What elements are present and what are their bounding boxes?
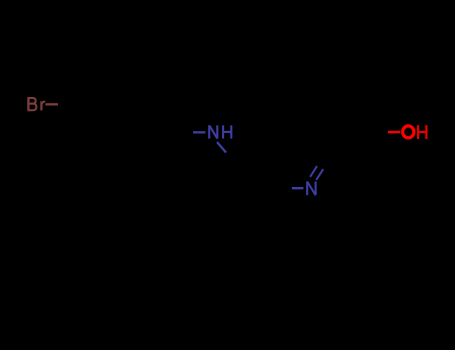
wire: bond into NH (left dash) — [193, 131, 205, 133]
wire: bond into ring N (left dash) — [292, 187, 304, 189]
wire: bond stub from NH going down-right — [217, 142, 226, 153]
atom label NH (amine) — [209, 125, 231, 138]
atom label N (pyridine-type ring nitrogen) — [307, 182, 315, 196]
atom label Br — [28, 98, 46, 111]
atom label OH (hydroxyl) — [403, 126, 414, 138]
wire: C=N double bond stubs going up-right — [310, 166, 317, 177]
wire: bond into OH (left dash) — [388, 131, 400, 134]
bond stub from Br — [46, 103, 59, 105]
